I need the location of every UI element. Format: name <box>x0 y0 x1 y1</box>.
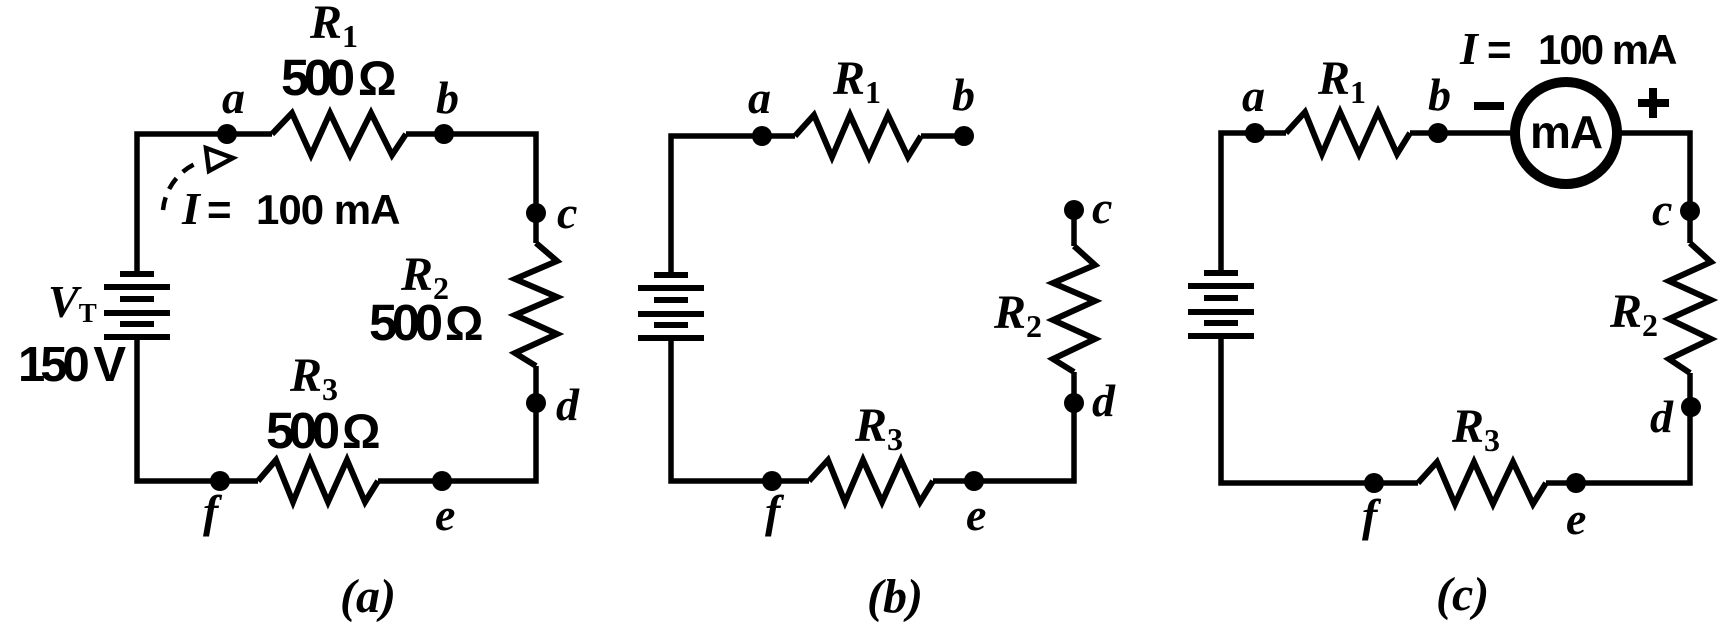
svg-text:150 V: 150 V <box>18 338 126 392</box>
node e (circuit a) <box>432 471 452 491</box>
svg-text:f: f <box>1362 490 1382 541</box>
svg-text:=: = <box>207 186 232 233</box>
svg-text:b: b <box>1428 69 1451 120</box>
resistor R3 (circuit c) <box>1418 462 1546 504</box>
svg-text:f: f <box>203 486 223 537</box>
wire: battery positive up and across to resistor R1 (circuit b) <box>671 136 795 278</box>
resistor R3 (circuit b) <box>809 460 933 502</box>
node f (circuit a) <box>210 471 230 491</box>
node a (circuit b) <box>752 126 772 146</box>
node f (circuit b) <box>762 471 782 491</box>
svg-text:I: I <box>181 183 202 234</box>
wire: R3 through node f back to battery negative (circuit c) <box>1221 336 1418 483</box>
node e (circuit c) <box>1566 473 1586 493</box>
wire: meter to node c (circuit c) <box>1615 133 1690 243</box>
battery (circuit b) <box>638 275 704 338</box>
svg-text:R1: R1 <box>309 0 358 54</box>
resistor R3 (circuit a) <box>258 460 378 502</box>
battery VT (circuit a) <box>104 274 170 337</box>
svg-text:R3: R3 <box>289 349 338 407</box>
current direction arrow (dashed arc) circuit a <box>163 163 197 210</box>
plus polarity sign at meter (circuit c) <box>1638 88 1669 118</box>
node a (circuit c) <box>1245 123 1265 143</box>
svg-text:I: I <box>1459 23 1480 74</box>
node a (circuit a) <box>217 124 237 144</box>
svg-text:a: a <box>222 72 245 123</box>
node b open end (circuit b) <box>954 126 974 146</box>
node d (circuit c) <box>1681 397 1701 417</box>
wire: open node c stub down to R2 (circuit b) <box>1071 210 1077 246</box>
svg-text:Ω: Ω <box>445 298 483 351</box>
minus polarity sign at meter (circuit c) <box>1474 102 1504 110</box>
battery (circuit c) <box>1188 273 1254 336</box>
wire: R2 through node d to node e (circuit c) <box>1546 373 1690 483</box>
svg-text:(c): (c) <box>1436 568 1489 621</box>
svg-text:e: e <box>966 489 986 540</box>
svg-text:100 mA: 100 mA <box>1538 26 1677 73</box>
svg-text:e: e <box>435 489 455 540</box>
wire: R2 through node d to node e (circuit b) <box>933 372 1074 481</box>
svg-text:d: d <box>1092 375 1116 426</box>
svg-text:R1: R1 <box>1317 52 1366 110</box>
node d (circuit a) <box>526 393 546 413</box>
svg-text:R2: R2 <box>1609 285 1658 343</box>
svg-text:R1: R1 <box>832 52 881 110</box>
svg-text:VT: VT <box>48 276 97 328</box>
node c open end (circuit b) <box>1064 200 1084 220</box>
resistor R1 (circuit b) <box>795 115 921 157</box>
svg-text:500: 500 <box>369 294 442 351</box>
svg-text:R3: R3 <box>854 399 903 457</box>
node f (circuit c) <box>1364 473 1384 493</box>
svg-text:d: d <box>556 379 580 430</box>
svg-text:500: 500 <box>281 49 354 106</box>
node c (circuit c) <box>1680 201 1700 221</box>
wire: R1 through node b to milliammeter (circuit c) <box>1410 130 1517 136</box>
wire: R2 through node d to node e (circuit a) <box>378 366 536 481</box>
svg-text:500: 500 <box>266 402 339 459</box>
resistor R2 (circuit b) <box>1053 246 1095 372</box>
milliammeter mA meter circle (circuit c) <box>1515 82 1617 184</box>
svg-text:=: = <box>1487 26 1512 73</box>
wire: R3 through node f back to battery negative (circuit b) <box>671 338 809 481</box>
node d (circuit b) <box>1064 393 1084 413</box>
wire: battery VT positive up and across to resistor R1 (circuit a) <box>137 134 272 277</box>
svg-text:(b): (b) <box>867 570 923 623</box>
node b (circuit c) <box>1428 123 1448 143</box>
resistor R1 (circuit a) <box>272 113 406 155</box>
wire: R1 to open node b (circuit b) <box>921 133 964 139</box>
current arrowhead circuit a <box>206 148 233 171</box>
node e (circuit b) <box>964 471 984 491</box>
resistor R2 (circuit a) <box>515 243 557 366</box>
resistor R1 (circuit c) <box>1286 112 1410 154</box>
svg-text:f: f <box>765 486 785 537</box>
svg-text:R2: R2 <box>993 286 1042 344</box>
svg-text:c: c <box>1092 182 1112 233</box>
svg-text:R3: R3 <box>1451 400 1500 458</box>
wire: battery positive up and across to resistor R1 (circuit c) <box>1221 133 1286 276</box>
svg-text:c: c <box>1652 184 1672 235</box>
svg-text:e: e <box>1566 493 1586 544</box>
svg-text:Ω: Ω <box>358 53 396 106</box>
resistor R2 (circuit c) <box>1669 243 1711 373</box>
svg-text:a: a <box>748 72 771 123</box>
svg-text:b: b <box>952 69 975 120</box>
svg-text:b: b <box>436 72 459 123</box>
svg-text:100 mA: 100 mA <box>256 186 400 233</box>
wire: R3 through node f back to battery VT negative (circuit a) <box>137 337 258 481</box>
svg-text:(a): (a) <box>340 570 396 623</box>
node b (circuit a) <box>434 124 454 144</box>
svg-text:a: a <box>1242 70 1265 121</box>
svg-text:Ω: Ω <box>342 406 380 459</box>
svg-text:c: c <box>557 187 577 238</box>
wire: R1 through node b to node c (circuit a) <box>406 134 536 243</box>
svg-text:d: d <box>1650 391 1674 442</box>
svg-text:mA: mA <box>1530 106 1602 158</box>
node c (circuit a) <box>526 203 546 223</box>
